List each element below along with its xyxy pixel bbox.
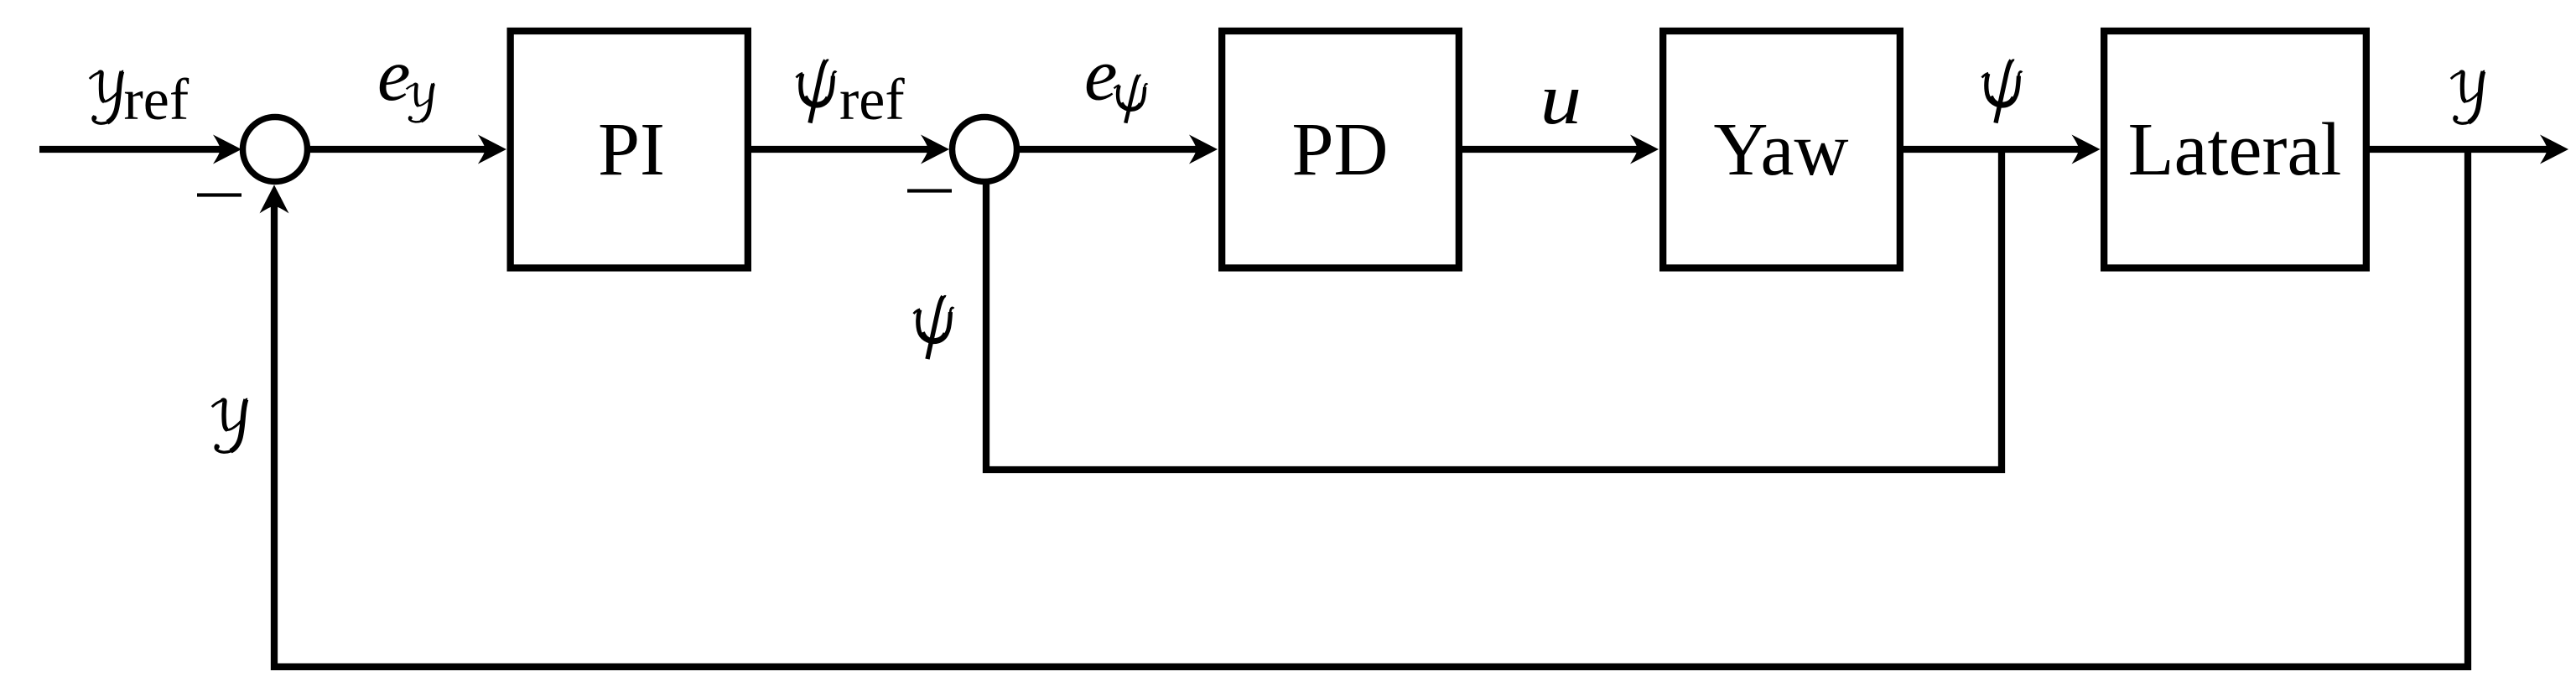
svg-text:e: e (377, 34, 411, 117)
block PD (1222, 31, 1459, 268)
svg-text:ref: ref (839, 68, 905, 133)
arrowhead into sum1 (213, 135, 241, 164)
arrowhead into sum2 (921, 135, 949, 164)
minus sign at S1 (197, 193, 241, 196)
arrowhead into Lateral (2072, 135, 2101, 164)
label psi feedback (914, 296, 954, 359)
label psi mid (1982, 60, 2023, 123)
label y out (2451, 71, 2485, 123)
wire sum1 to PI (310, 146, 488, 153)
svg-text:Lateral: Lateral (2128, 108, 2342, 191)
block Yaw (1663, 31, 1900, 268)
label psi_ref : psi (797, 60, 837, 123)
svg-text:PD: PD (1291, 108, 1388, 191)
svg-text:Yaw: Yaw (1714, 108, 1849, 191)
summing junction S1 (243, 117, 308, 182)
wire sum2 to PD (1020, 146, 1199, 153)
label y_ref : y (90, 71, 123, 123)
block Lateral (2104, 31, 2366, 268)
wire y feedback loop (274, 153, 2468, 667)
wire output y (2370, 146, 2550, 153)
wire PD to Yaw (1462, 146, 1640, 153)
arrowhead into PD (1189, 135, 1218, 164)
arrowhead feedback up into sum1 (260, 185, 289, 213)
svg-text:ref: ref (124, 68, 190, 133)
wire PI to sum2 (751, 146, 931, 153)
arrowhead into Yaw (1630, 135, 1659, 164)
minus sign at S2 (907, 189, 952, 192)
svg-text:u: u (1540, 59, 1581, 139)
label u (1540, 59, 1581, 139)
wire psi feedback loop (986, 153, 2002, 470)
wire Yaw to Lateral (1903, 146, 2081, 153)
label e_y : y sub (407, 84, 434, 122)
label e_psi : psi sub (1114, 75, 1148, 123)
label y feedback (212, 399, 247, 452)
svg-text:e: e (1084, 34, 1118, 117)
block PI (511, 31, 748, 268)
summing junction S2 (953, 117, 1017, 182)
wire input yref (39, 146, 223, 153)
arrowhead into PI (478, 135, 506, 164)
arrowhead output (2540, 135, 2568, 164)
svg-text:PI: PI (598, 108, 665, 191)
